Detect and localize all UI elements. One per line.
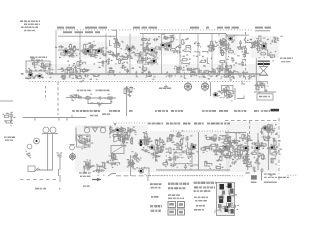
wire transformer lead left xyxy=(47,134,49,170)
resistor R127 xyxy=(215,164,221,171)
capacitor C68 xyxy=(72,94,81,99)
ground G4 xyxy=(260,168,264,172)
wire W80 xyxy=(219,207,226,211)
junction node J21 xyxy=(216,75,218,77)
resistor R97 xyxy=(83,165,92,168)
caption row text 4 xyxy=(155,110,168,112)
wire W10 xyxy=(193,52,200,57)
speaker jack J1 xyxy=(70,145,75,150)
capacitor C105 xyxy=(160,146,168,153)
wire W3 xyxy=(88,49,98,55)
resistor R4 xyxy=(70,49,77,56)
wire W15 xyxy=(250,43,259,48)
capacitor C65 xyxy=(227,70,235,77)
resistor R78 xyxy=(228,91,235,98)
capacitor C91 xyxy=(84,138,94,145)
wire W19 xyxy=(246,39,253,45)
capacitor C8 xyxy=(88,42,94,52)
transistor Q13 xyxy=(213,91,222,99)
resistor R32 xyxy=(251,42,255,49)
wire vertical wire flyback left xyxy=(255,58,257,90)
title block text line 3 xyxy=(21,27,38,29)
yoke box xyxy=(257,94,273,100)
junction node J4 xyxy=(100,49,102,51)
junction node J20 xyxy=(154,74,156,76)
capacitor C30 xyxy=(105,48,113,56)
wire lamp return wire xyxy=(210,82,212,96)
transistor Q5 xyxy=(149,48,158,55)
lower section title 4 xyxy=(194,123,204,125)
wire W26 xyxy=(225,68,229,74)
resistor R13 xyxy=(141,38,150,41)
transistor Q15 xyxy=(138,167,146,176)
wire W73 xyxy=(236,145,244,155)
capacitor C107 xyxy=(183,135,193,141)
capacitor C57 xyxy=(216,72,223,79)
resistor R64 xyxy=(137,61,147,68)
wire output stage drop wire x=247.7 xyxy=(247,133,249,170)
capacitor C113 xyxy=(225,134,231,143)
junction node J50 xyxy=(237,147,239,149)
resistor R67 xyxy=(181,59,191,64)
wire W58 xyxy=(170,157,176,161)
divider caption b xyxy=(102,113,110,115)
section title label 9 xyxy=(206,27,209,29)
dotted leader mid xyxy=(113,122,148,123)
left margin caption xyxy=(4,137,15,139)
wire W23 xyxy=(206,70,215,76)
connector pad 6 xyxy=(230,189,234,194)
resistor R44 xyxy=(108,71,115,76)
section subtitle label 3 xyxy=(85,31,93,33)
capacitor C83 xyxy=(118,127,125,133)
resistor R34 xyxy=(113,38,118,46)
wire W4 xyxy=(87,49,98,51)
transistor Q3 xyxy=(95,47,104,56)
capacitor C106 xyxy=(174,154,184,158)
terminal strip outline 4 xyxy=(178,209,185,215)
resistor R61 xyxy=(233,70,239,78)
resistor R143 xyxy=(258,153,266,159)
resistor R21 xyxy=(207,45,214,51)
junction node J27 xyxy=(214,71,216,73)
caption row text 3 xyxy=(129,110,133,112)
junction node J55 xyxy=(222,195,224,197)
title block text line 2 xyxy=(24,24,40,26)
resistor R65 xyxy=(74,61,82,69)
resistor R1 xyxy=(68,44,75,53)
wire drop wire video out xyxy=(130,155,132,176)
capacitor C28 xyxy=(253,41,261,49)
capacitor C37 xyxy=(112,52,119,60)
resistor R144 xyxy=(255,142,265,146)
resistor R28 xyxy=(256,45,263,53)
detector note text xyxy=(280,58,293,59)
capacitor C24 xyxy=(217,38,226,46)
transistor Q4 xyxy=(127,46,136,52)
resistor R91 xyxy=(144,139,153,145)
resistor R136 xyxy=(236,154,244,162)
dashed boundary corner drop xyxy=(249,121,251,135)
resistor R22 xyxy=(208,41,218,48)
wire W44 xyxy=(124,134,130,140)
wire W52 xyxy=(101,162,109,168)
notes dashes 2 xyxy=(168,198,184,200)
resistor R138 xyxy=(244,135,250,144)
section subtitle label 2 xyxy=(75,31,84,33)
junction node J15 xyxy=(167,71,169,73)
transistor Q17 xyxy=(191,143,199,153)
transistor Q12 xyxy=(150,58,159,64)
schedule dashes 1 xyxy=(194,197,208,199)
junction node J6 xyxy=(151,53,153,55)
resistor R60 xyxy=(79,68,86,76)
caption row text 7 xyxy=(219,110,228,112)
sweep section wiring haze xyxy=(226,122,278,172)
capacitor C99 xyxy=(132,155,140,159)
resistor R15 xyxy=(138,56,143,62)
wire W1 xyxy=(68,56,74,58)
resistor R71 xyxy=(185,65,195,74)
resistor R16 xyxy=(122,57,128,64)
wire cap lead down xyxy=(59,159,61,171)
capacitor C123 xyxy=(233,141,241,148)
resistor R57 xyxy=(69,73,78,79)
wire W63 xyxy=(216,142,226,150)
transistor Q21 xyxy=(254,145,264,154)
wire W29 xyxy=(58,68,64,72)
capacitor C96 xyxy=(98,169,105,176)
dotted edge under return bus xyxy=(147,175,229,176)
resistor R73 xyxy=(107,94,113,103)
wire W30 xyxy=(191,71,197,77)
resistor R120 xyxy=(217,148,226,156)
tuner caption text 2 xyxy=(31,60,43,61)
fuse F1 xyxy=(27,144,32,149)
wire W79 xyxy=(242,158,248,164)
wire vertical wire to bus at x=212 xyxy=(211,34,213,74)
wire W17 xyxy=(110,36,116,46)
resistor R86 xyxy=(116,135,124,142)
capacitor C87 xyxy=(140,139,147,148)
capacitor C45 xyxy=(248,75,256,80)
junction node J43 xyxy=(182,147,184,149)
capacitor C97 xyxy=(108,161,115,168)
adjust cross mark 2 xyxy=(270,174,273,177)
capacitor C38 xyxy=(40,65,50,71)
resistor R48 xyxy=(227,71,234,77)
audio amp wiring haze xyxy=(148,131,230,172)
capacitor C48 xyxy=(119,65,129,73)
wire W74 xyxy=(257,140,260,147)
wire W34 xyxy=(79,58,86,64)
junction node J56 xyxy=(228,212,230,214)
transistor Q6 xyxy=(160,42,168,50)
wire W71 xyxy=(231,150,236,158)
junction node J37 xyxy=(101,165,103,167)
capacitor C67 xyxy=(73,94,82,98)
wire left brace wire xyxy=(76,128,79,141)
capacitor C81 xyxy=(119,139,128,145)
wire W67 xyxy=(205,162,212,167)
lamp terminal box xyxy=(222,85,234,90)
wire yoke connector wire xyxy=(254,91,276,93)
resistor R47 xyxy=(82,69,90,71)
capacitor C111 xyxy=(176,134,184,139)
wire vertical wire to bus at x=56 xyxy=(55,30,57,74)
caption row text 2 xyxy=(109,110,120,112)
schedule marks row xyxy=(196,205,205,207)
switch box S1 xyxy=(28,166,35,172)
resistor R33 xyxy=(268,53,275,61)
capacitor C62 xyxy=(231,55,240,63)
junction node J32 xyxy=(131,138,133,140)
jack contact bar xyxy=(70,144,75,146)
capacitor C51 xyxy=(216,67,223,72)
section title label 12 xyxy=(232,27,240,29)
lower section title 5 xyxy=(207,123,230,125)
resistor R6 xyxy=(82,46,91,52)
underline for right section title xyxy=(255,30,270,32)
transistor Q1 xyxy=(63,49,72,57)
lower section title 2 xyxy=(166,123,180,125)
parts list col A row 1 xyxy=(150,183,161,185)
wire divider tick at 67 xyxy=(66,118,68,121)
pilot lamp PL1 xyxy=(184,82,191,92)
bottom-left dashed note line xyxy=(20,179,56,181)
capacitor C101 xyxy=(129,158,137,163)
resistor R92 xyxy=(143,131,147,139)
capacitor C132 xyxy=(251,142,260,148)
resistor R63 xyxy=(115,58,125,64)
capacitor C1 xyxy=(65,51,71,57)
connector pad 7 xyxy=(222,191,225,195)
capacitor C102 xyxy=(159,139,165,147)
wire W22 xyxy=(21,68,31,75)
wire vertical wire to bus at x=180 xyxy=(179,34,181,74)
capacitor C131 xyxy=(245,153,253,158)
wire corner wire to bottom xyxy=(141,168,149,176)
resistor R106 xyxy=(157,149,164,153)
wire boundary tick drop xyxy=(147,175,149,181)
resistor R11 xyxy=(143,48,149,54)
junction node J40 xyxy=(157,147,159,149)
section title label 14 xyxy=(265,27,272,29)
section title label 10 xyxy=(217,27,223,29)
capacitor C23 xyxy=(220,39,227,46)
wire W76 xyxy=(267,145,274,154)
wire W59 xyxy=(182,149,188,155)
switch lever xyxy=(35,168,39,172)
shield box audio xyxy=(174,153,192,164)
lower section title 1 xyxy=(148,123,163,125)
rectifier tube V2 xyxy=(34,138,40,144)
resistor R85 xyxy=(120,127,129,135)
wire W47 xyxy=(138,140,149,145)
resistor R117 xyxy=(224,145,233,151)
terminal strip outline 2 xyxy=(178,202,185,208)
wire vertical wire to bus at x=80 xyxy=(79,34,81,74)
resistor R109 xyxy=(166,134,172,142)
capacitor C15 xyxy=(153,36,160,41)
resistor R41 xyxy=(32,61,40,65)
wire vertical wire to bus at x=143 xyxy=(142,34,144,74)
capacitor C43 xyxy=(198,70,207,75)
resistor R42 xyxy=(44,64,53,70)
dotted rule under section titles xyxy=(57,29,251,30)
resistor R140 xyxy=(238,144,245,152)
wire W31 xyxy=(242,71,248,77)
capacitor C12 xyxy=(125,44,135,50)
capacitor C22 xyxy=(222,46,231,53)
capacitor C90 xyxy=(141,138,150,141)
wire b+ feed wire right xyxy=(225,132,246,134)
wire vertical wire to bus at x=130 xyxy=(129,34,131,74)
sound det caption xyxy=(159,88,171,90)
wire W60 xyxy=(188,142,195,148)
wire W69 xyxy=(260,129,270,132)
capacitor C61 xyxy=(105,58,113,65)
resistor R12 xyxy=(145,49,150,57)
flyback winding bar (dark) xyxy=(258,63,270,65)
resistor R19 xyxy=(171,35,178,43)
capacitor C109 xyxy=(189,152,195,158)
legend dashes xyxy=(264,173,276,174)
section title label 3 xyxy=(85,27,97,29)
junction node J11 xyxy=(275,51,277,53)
resistor R35 xyxy=(113,43,122,49)
capacitor C26 xyxy=(270,40,279,45)
wire W45 xyxy=(109,133,116,142)
resistor R135 xyxy=(238,149,248,156)
junction node J38 xyxy=(112,160,114,162)
resistor R26 xyxy=(221,43,227,46)
capacitor C114 xyxy=(213,147,221,155)
wire boundary start hook xyxy=(108,174,116,177)
crystal diagonal xyxy=(111,146,124,154)
capacitor C79 xyxy=(118,130,125,137)
capacitor C76 xyxy=(8,112,15,119)
resistor R95 xyxy=(80,138,88,148)
resistor R29 xyxy=(256,35,265,42)
wire output stage drop wire x=258 xyxy=(257,133,259,170)
resistor R38 xyxy=(242,46,247,55)
tube heater V3 xyxy=(84,128,89,133)
junction node J28 xyxy=(212,68,214,70)
capacitor C117 xyxy=(223,143,232,151)
section title label 7 xyxy=(149,27,158,29)
resistor R142 xyxy=(261,144,270,150)
capacitor C137 xyxy=(274,148,282,155)
resistor R130 xyxy=(231,148,238,156)
transistor Q22 xyxy=(269,145,278,150)
caption row text 1 xyxy=(72,110,100,112)
capacitor C128 xyxy=(244,137,253,141)
wire vertical wire to bus at x=161.5 xyxy=(161,34,163,74)
junction node J13 xyxy=(244,38,246,40)
caption row text 5 xyxy=(171,110,183,112)
resistor R141 xyxy=(251,152,260,158)
wire W7 xyxy=(118,53,125,62)
wire W70 xyxy=(261,127,266,134)
notes dashes 1 xyxy=(168,194,180,196)
dotted rule left stub xyxy=(29,81,49,82)
resistor R30 xyxy=(253,41,259,49)
section title label 4 xyxy=(99,27,108,29)
junction node J7 xyxy=(131,52,133,54)
capacitor C138 xyxy=(225,154,232,160)
wire W38 xyxy=(129,87,135,96)
capacitor C115 xyxy=(219,149,226,157)
IF transformer label xyxy=(77,90,91,92)
capacitor C100 xyxy=(131,151,141,159)
capacitor C34 xyxy=(237,40,246,48)
capacitor C89 xyxy=(141,149,152,154)
resistor R105 xyxy=(154,148,162,154)
capacitor C95 xyxy=(95,166,103,176)
resistor R5 xyxy=(84,49,91,53)
resistor R62 xyxy=(145,73,154,80)
capacitor C20 xyxy=(194,42,201,48)
parts list col A row 3 xyxy=(151,196,159,198)
volume control box xyxy=(77,135,91,147)
tuner stage wiring haze xyxy=(58,42,108,58)
wire W48 xyxy=(146,134,150,142)
capacitor C86 xyxy=(116,135,124,141)
capacitor C3 xyxy=(69,46,77,54)
capacitor C94 xyxy=(86,164,95,172)
yoke box label xyxy=(259,96,270,98)
junction node J53 xyxy=(273,139,275,141)
capacitor C119 xyxy=(220,148,226,155)
transformer core bar xyxy=(42,133,58,135)
capacitor C130 xyxy=(240,154,248,159)
bottom boundary dashes xyxy=(116,175,147,177)
capacitor C78 xyxy=(57,152,63,158)
wire AGC line xyxy=(81,97,116,99)
connector caption xyxy=(230,203,233,204)
legend bracket xyxy=(261,171,263,181)
wire W16 xyxy=(264,49,271,55)
capacitor C55 xyxy=(107,67,114,75)
wire link wire volume xyxy=(66,97,81,99)
resistor R8 xyxy=(82,49,91,56)
wire W14 xyxy=(257,44,266,50)
wire W82 xyxy=(223,199,230,209)
resistor R112 xyxy=(176,144,182,150)
resistor R10 xyxy=(153,47,161,51)
capacitor C134 xyxy=(262,136,270,142)
left margin caption 2 xyxy=(5,140,13,141)
dotted leader lower xyxy=(170,130,228,131)
damper tube V1 (bowtie symbol) xyxy=(259,62,268,76)
resistor R66 xyxy=(199,60,206,67)
wire W2 xyxy=(55,46,64,52)
wire divider tick at 59 xyxy=(58,118,60,121)
wire vertical wire to bus at x=198 xyxy=(197,34,199,74)
junction node J3 xyxy=(94,45,96,47)
resistor R102 xyxy=(127,159,131,167)
wire W21 xyxy=(31,58,37,68)
wire W54 xyxy=(136,156,140,162)
junction node J23 xyxy=(83,71,85,73)
resistor R72 xyxy=(85,94,93,104)
resistor R134 xyxy=(269,130,278,135)
connector pad 8 xyxy=(228,203,231,207)
junction node J29 xyxy=(230,93,232,95)
parts list col A glyph row 1 xyxy=(150,205,162,207)
wire top supply rail right jog xyxy=(226,34,249,36)
